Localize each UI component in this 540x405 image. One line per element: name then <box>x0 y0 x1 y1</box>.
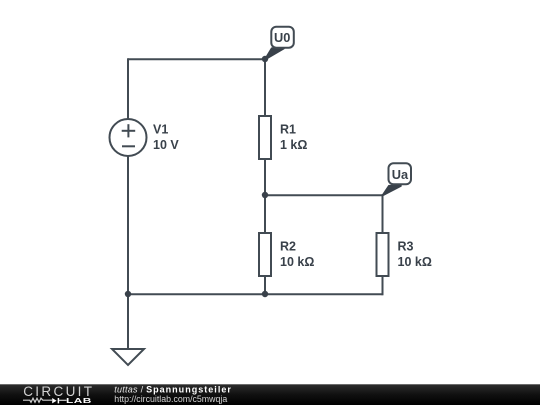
wire left branch lower <box>127 156 129 349</box>
wire bottom horizontal <box>128 293 383 295</box>
svg-text:Ua: Ua <box>392 167 409 182</box>
node junction middle <box>262 192 268 198</box>
resistor R1 <box>259 116 271 159</box>
resistor R2 <box>259 233 271 276</box>
logo diode <box>52 398 56 403</box>
svg-text:1 kΩ: 1 kΩ <box>280 138 307 152</box>
wire top horizontal <box>128 58 265 60</box>
node flag Ua <box>383 163 411 195</box>
svg-text:R2: R2 <box>280 240 296 254</box>
svg-text:U0: U0 <box>274 30 290 45</box>
label R1 value <box>280 123 307 153</box>
wire middle branch below R2 <box>264 276 266 295</box>
node junction bottom left <box>125 291 131 297</box>
ground <box>112 349 144 365</box>
svg-text:R3: R3 <box>398 240 414 254</box>
label R3 value <box>398 240 432 270</box>
wire right branch below R3 <box>382 276 384 295</box>
wire right branch above R3 <box>382 194 384 233</box>
svg-text:tuttas / Spannungsteiler: tuttas / Spannungsteiler <box>114 385 232 395</box>
node flag U0 <box>265 27 294 60</box>
svg-text:LAB: LAB <box>66 397 92 405</box>
wire middle horizontal <box>265 194 383 196</box>
svg-text:10 V: 10 V <box>153 138 179 152</box>
svg-text:http://circuitlab.com/c5mwqja: http://circuitlab.com/c5mwqja <box>114 394 227 404</box>
wire middle branch R1 to node <box>264 159 266 233</box>
node junction bottom center <box>262 291 268 297</box>
logo resistor zigzag <box>23 398 52 402</box>
svg-text:10 kΩ: 10 kΩ <box>398 255 432 269</box>
resistor R3 <box>377 233 389 276</box>
footer bar <box>0 384 540 405</box>
svg-text:10 kΩ: 10 kΩ <box>280 255 314 269</box>
svg-text:V1: V1 <box>153 123 168 137</box>
wire left branch upper <box>127 58 129 119</box>
node junction at top <box>262 56 268 62</box>
voltage source V1 <box>110 119 147 156</box>
label R2 value <box>280 240 314 270</box>
label V1 value <box>153 123 179 153</box>
svg-text:R1: R1 <box>280 123 296 137</box>
wire middle branch above R1 <box>264 58 266 116</box>
